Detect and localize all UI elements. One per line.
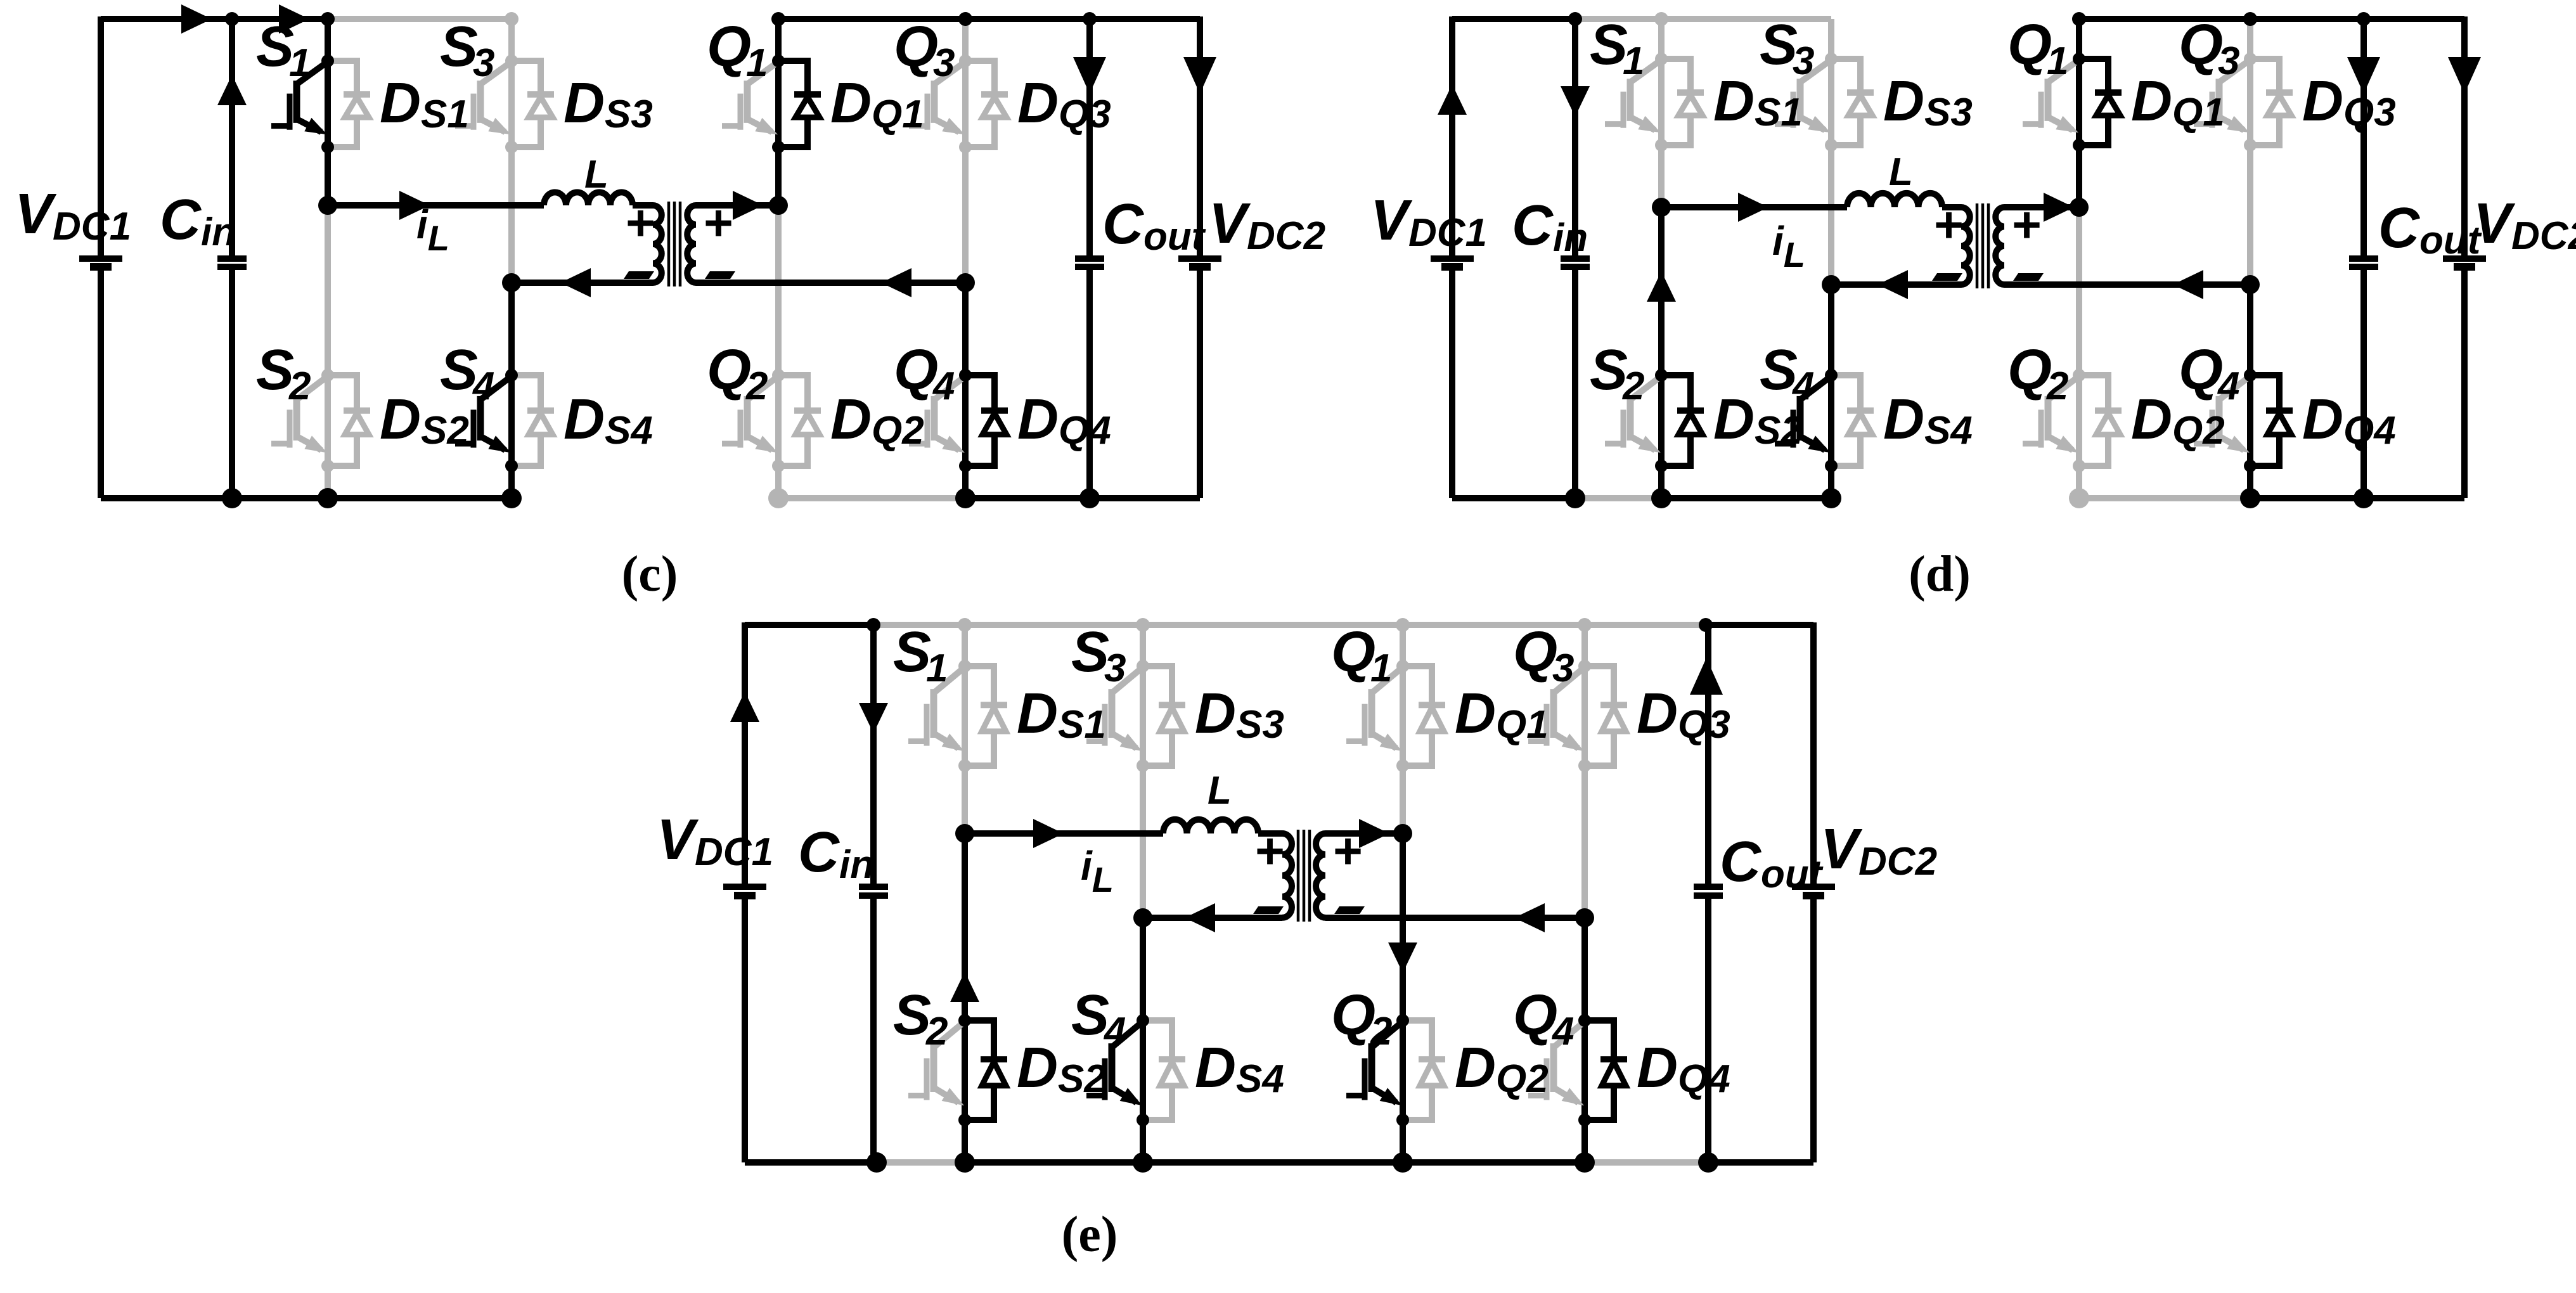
svg-text:L: L [1889, 150, 1913, 194]
svg-text:L: L [584, 153, 609, 196]
svg-text:+: + [703, 195, 733, 251]
svg-text:(e): (e) [1062, 1207, 1118, 1263]
svg-text:+: + [1933, 196, 1963, 253]
svg-text:+: + [625, 195, 655, 251]
svg-text:+: + [1332, 823, 1362, 879]
svg-text:(d): (d) [1909, 546, 1971, 602]
svg-text:+: + [2011, 196, 2041, 253]
svg-text:(c): (c) [622, 546, 678, 602]
svg-text:+: + [1254, 823, 1284, 879]
svg-text:L: L [1207, 769, 1232, 813]
